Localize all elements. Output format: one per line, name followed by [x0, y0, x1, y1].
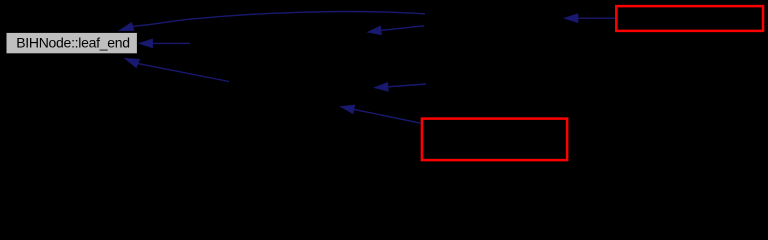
edge: top-right red node to hidden caller (arrow at x564) [564, 14, 615, 23]
svg-text:BIHNode::leaf_end: BIHNode::leaf_end [16, 34, 130, 50]
node BIHNode::leaf_end (current node, grey) [6, 32, 137, 53]
edge: hidden caller chain (arrow at x374, lower) [374, 82, 426, 91]
edge: bottom red node to hidden caller (arrow at x340) [340, 105, 421, 123]
edge: hidden caller chain (arrow at x368) [368, 26, 425, 35]
node (truncated, red border) bottom [422, 119, 567, 161]
node (truncated, red border) top right [616, 6, 763, 31]
edge: hidden caller to BIHNode::leaf_end (long bottom diagonal) [125, 58, 229, 81]
edge: hidden caller to BIHNode::leaf_end (horizontal middle) [139, 39, 190, 48]
edge: hidden caller to BIHNode::leaf_end (long top curve) [119, 12, 425, 31]
